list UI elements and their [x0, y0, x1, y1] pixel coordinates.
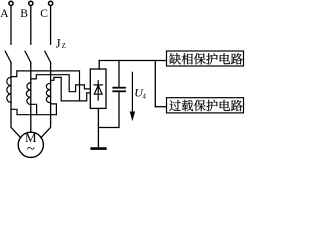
CT coil L1 (phase A) [7, 77, 11, 102]
wire phase A to motor [11, 63, 21, 138]
contact JZ pole B [25, 51, 31, 63]
wire to overload box [155, 106, 166, 108]
svg-text:C: C [40, 8, 48, 20]
phase-loss protection box [167, 51, 244, 66]
wire L2 top [31, 75, 91, 92]
wire + bus rail [99, 60, 166, 62]
svg-text:B: B [20, 8, 28, 20]
wire L1 bottom common [11, 109, 56, 114]
svg-text:A: A [0, 8, 9, 20]
capacitor C1 bottom lead [98, 92, 119, 127]
contact JZ pole C [45, 51, 51, 63]
wire L3 top [51, 77, 91, 101]
terminal C [49, 1, 53, 5]
ground bar [92, 147, 106, 150]
node junction to protection circuits [154, 61, 156, 107]
wire phase C to motor [41, 63, 51, 138]
text: phase-loss protection circuit [169, 53, 242, 64]
text: overload protection circuit [169, 100, 242, 111]
terminal B [29, 1, 33, 5]
wire L2 bottom [31, 104, 37, 114]
terminal A [9, 1, 13, 5]
wire L1 top to rectifier [11, 71, 80, 101]
svg-text:~: ~ [27, 142, 35, 158]
wire rectifier - output [97, 108, 99, 147]
svg-text:4: 4 [142, 92, 146, 100]
wire phase B to motor [30, 63, 32, 132]
wire L3 bottom [51, 104, 57, 115]
overload protection box [167, 98, 244, 113]
voltage arrow U4 [131, 72, 133, 112]
diode D1 [94, 81, 102, 100]
wire phase C upper [50, 6, 52, 44]
wire phase A upper [10, 6, 12, 44]
CT coil L3 (phase C) [46, 83, 50, 103]
CT coil L2 (phase B) [26, 83, 30, 105]
motor M circle [18, 132, 43, 157]
svg-text:J: J [56, 37, 61, 51]
rectifier box U1 [90, 69, 106, 108]
capacitor C1 top lead [118, 61, 120, 87]
capacitor C1 plates [113, 87, 125, 89]
wire phase B upper [30, 6, 32, 44]
wire rectifier + output [98, 61, 100, 70]
contact JZ pole A [5, 51, 11, 63]
svg-text:Z: Z [62, 43, 66, 50]
